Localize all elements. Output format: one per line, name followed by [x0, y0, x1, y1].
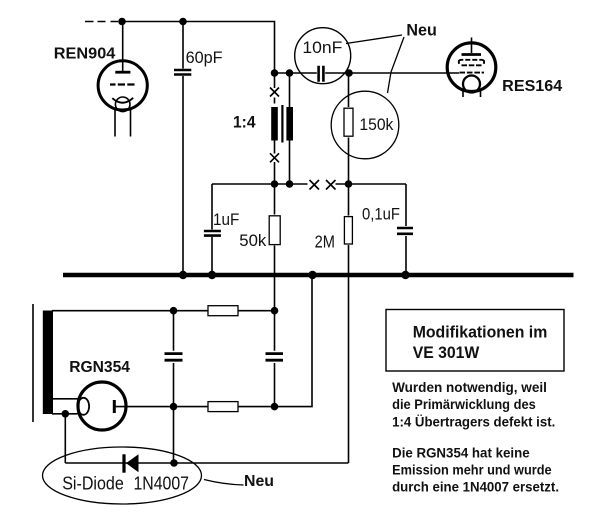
svg-text:die Primärwicklung des: die Primärwicklung des [392, 397, 536, 412]
svg-text:60pF: 60pF [186, 48, 223, 67]
svg-text:Modifikationen im: Modifikationen im [413, 323, 548, 342]
svg-text:RGN354: RGN354 [69, 359, 130, 376]
svg-text:durch eine 1N4007 ersetzt.: durch eine 1N4007 ersetzt. [392, 480, 559, 495]
svg-text:Wurden notwendig, weil: Wurden notwendig, weil [392, 380, 547, 395]
svg-text:1N4007: 1N4007 [134, 472, 190, 493]
svg-text:Neu: Neu [244, 473, 274, 490]
svg-text:Emission mehr und wurde: Emission mehr und wurde [392, 463, 552, 478]
svg-text:1:4: 1:4 [233, 112, 256, 131]
svg-text:RES164: RES164 [502, 78, 562, 95]
svg-text:2M: 2M [315, 232, 335, 252]
svg-text:Neu: Neu [406, 21, 436, 40]
svg-text:0,1uF: 0,1uF [362, 205, 400, 224]
svg-text:50k: 50k [239, 232, 267, 250]
svg-text:REN904: REN904 [54, 46, 116, 63]
svg-text:VE 301W: VE 301W [413, 343, 480, 362]
svg-text:1:4 Übertragers defekt ist.: 1:4 Übertragers defekt ist. [392, 414, 555, 429]
svg-text:10nF: 10nF [302, 38, 342, 57]
svg-text:Die RGN354 hat keine: Die RGN354 hat keine [392, 446, 530, 461]
svg-text:Si-Diode: Si-Diode [62, 472, 124, 493]
svg-text:1uF: 1uF [213, 211, 239, 229]
svg-text:150k: 150k [359, 116, 394, 134]
